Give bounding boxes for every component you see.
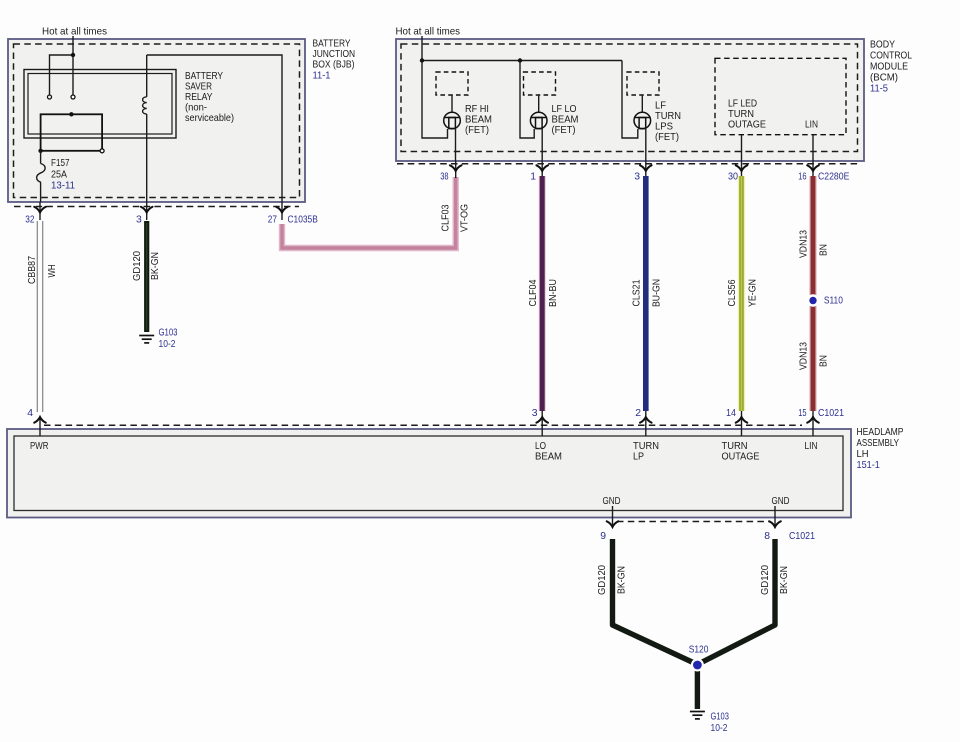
svg-text:13-11: 13-11 xyxy=(51,181,75,192)
svg-text:11-5: 11-5 xyxy=(870,84,888,95)
svg-text:LPS: LPS xyxy=(655,122,673,133)
svg-text:GD120: GD120 xyxy=(760,565,771,595)
svg-text:S110: S110 xyxy=(824,296,843,307)
svg-text:serviceable): serviceable) xyxy=(185,113,234,124)
svg-text:BK-GN: BK-GN xyxy=(150,252,161,280)
svg-text:(FET): (FET) xyxy=(552,125,576,136)
svg-text:MODULE: MODULE xyxy=(870,62,908,73)
svg-text:VT-OG: VT-OG xyxy=(460,204,471,232)
svg-text:38: 38 xyxy=(440,172,448,183)
svg-text:JUNCTION: JUNCTION xyxy=(313,49,356,60)
svg-text:(FET): (FET) xyxy=(465,125,489,136)
svg-text:(FET): (FET) xyxy=(655,132,679,143)
svg-text:TURN: TURN xyxy=(655,111,681,122)
svg-text:25A: 25A xyxy=(51,170,67,181)
svg-text:GND: GND xyxy=(603,496,621,507)
svg-text:OUTAGE: OUTAGE xyxy=(722,452,760,463)
svg-text:27: 27 xyxy=(268,215,277,226)
svg-text:30: 30 xyxy=(728,172,738,183)
svg-text:C1035B: C1035B xyxy=(288,215,318,226)
svg-text:BN-BU: BN-BU xyxy=(548,279,559,307)
svg-text:15: 15 xyxy=(798,408,806,419)
svg-text:C1021: C1021 xyxy=(789,531,815,542)
svg-text:BOX (BJB): BOX (BJB) xyxy=(313,60,355,71)
svg-text:32: 32 xyxy=(25,215,34,226)
svg-text:C2280E: C2280E xyxy=(818,172,849,183)
svg-text:11-1: 11-1 xyxy=(313,71,331,82)
svg-text:PWR: PWR xyxy=(30,441,49,452)
svg-text:151-1: 151-1 xyxy=(857,460,880,471)
svg-text:10-2: 10-2 xyxy=(711,723,728,734)
svg-text:F157: F157 xyxy=(51,158,70,169)
svg-text:BODY: BODY xyxy=(870,40,895,51)
svg-text:TURN: TURN xyxy=(728,109,754,120)
svg-text:LP: LP xyxy=(633,452,644,463)
svg-text:CLS56: CLS56 xyxy=(727,279,738,306)
svg-text:LH: LH xyxy=(857,449,869,460)
svg-text:G103: G103 xyxy=(711,712,730,723)
svg-text:HEADLAMP: HEADLAMP xyxy=(857,427,904,438)
svg-text:LIN: LIN xyxy=(805,441,818,452)
svg-text:OUTAGE: OUTAGE xyxy=(728,120,766,131)
svg-text:ASSEMBLY: ASSEMBLY xyxy=(857,438,900,449)
svg-text:3: 3 xyxy=(532,408,538,419)
svg-text:SAVER: SAVER xyxy=(185,82,212,93)
svg-text:BK-GN: BK-GN xyxy=(779,566,790,594)
svg-text:BATTERY: BATTERY xyxy=(185,71,223,82)
svg-text:GD120: GD120 xyxy=(132,251,143,281)
svg-text:S120: S120 xyxy=(689,645,709,656)
svg-text:GND: GND xyxy=(772,496,790,507)
svg-text:G103: G103 xyxy=(159,328,178,339)
svg-text:BEAM: BEAM xyxy=(535,452,562,463)
svg-text:CONTROL: CONTROL xyxy=(870,51,912,62)
svg-text:BATTERY: BATTERY xyxy=(313,39,351,50)
svg-text:CLF04: CLF04 xyxy=(528,279,539,306)
svg-text:GD120: GD120 xyxy=(597,565,608,595)
svg-text:LF LED: LF LED xyxy=(728,99,757,110)
svg-text:BK-GN: BK-GN xyxy=(617,566,628,594)
svg-text:4: 4 xyxy=(27,408,33,419)
svg-text:RELAY: RELAY xyxy=(185,92,213,103)
svg-text:14: 14 xyxy=(726,408,736,419)
svg-text:BU-GN: BU-GN xyxy=(652,279,663,307)
svg-text:CLS21: CLS21 xyxy=(632,279,643,306)
svg-text:10-2: 10-2 xyxy=(159,339,176,350)
svg-text:BEAM: BEAM xyxy=(465,115,492,126)
svg-text:TURN: TURN xyxy=(633,441,659,452)
svg-text:1: 1 xyxy=(530,172,536,183)
svg-text:CBB87: CBB87 xyxy=(27,256,38,284)
svg-text:CLF03: CLF03 xyxy=(441,204,452,231)
svg-text:8: 8 xyxy=(764,531,770,542)
svg-text:LF: LF xyxy=(655,101,666,112)
svg-text:Hot at all times: Hot at all times xyxy=(42,27,107,38)
svg-text:BN: BN xyxy=(819,244,830,256)
svg-text:Hot at all times: Hot at all times xyxy=(396,27,461,38)
svg-text:3: 3 xyxy=(634,172,640,183)
svg-text:TURN: TURN xyxy=(722,441,748,452)
svg-text:YE-GN: YE-GN xyxy=(748,279,759,307)
svg-text:BN: BN xyxy=(819,355,830,367)
svg-text:BEAM: BEAM xyxy=(552,115,579,126)
svg-text:LF LO: LF LO xyxy=(552,104,577,115)
svg-text:9: 9 xyxy=(600,531,606,542)
svg-text:2: 2 xyxy=(635,408,641,419)
svg-text:3: 3 xyxy=(136,215,142,226)
svg-text:VDN13: VDN13 xyxy=(799,342,810,370)
svg-text:VDN13: VDN13 xyxy=(799,230,810,258)
svg-text:(non-: (non- xyxy=(185,103,207,114)
svg-text:RF HI: RF HI xyxy=(465,104,489,115)
svg-text:(BCM): (BCM) xyxy=(870,73,898,84)
svg-text:WH: WH xyxy=(47,265,58,278)
svg-text:LO: LO xyxy=(535,441,546,452)
svg-text:LIN: LIN xyxy=(805,120,818,131)
svg-text:16: 16 xyxy=(798,172,806,183)
svg-text:C1021: C1021 xyxy=(818,408,844,419)
